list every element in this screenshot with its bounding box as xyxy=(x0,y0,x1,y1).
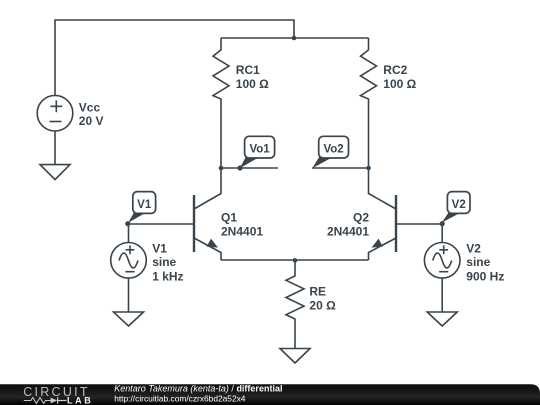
footer bar xyxy=(0,383,540,405)
node V2 junction xyxy=(440,221,445,226)
svg-text:2N4401: 2N4401 xyxy=(327,225,369,239)
svg-text:RC1: RC1 xyxy=(236,63,260,77)
svg-text:Q2: Q2 xyxy=(353,210,369,224)
voltage source V1 sine xyxy=(111,242,147,278)
wire V1 to ground xyxy=(128,278,130,312)
voltage source Vcc xyxy=(37,95,73,131)
node label Vo1 xyxy=(240,136,275,168)
resistor RC2 xyxy=(361,38,377,168)
node junction top center xyxy=(292,36,297,41)
node junction RC1 collector xyxy=(219,166,224,171)
svg-text:V2: V2 xyxy=(452,199,466,211)
svg-text:V1: V1 xyxy=(137,199,152,211)
svg-text:RE: RE xyxy=(309,284,326,298)
svg-text:V1: V1 xyxy=(152,241,167,255)
ground below RE xyxy=(280,349,310,364)
svg-text:Kentaro Takemura (kenta-ta) /: Kentaro Takemura (kenta-ta) / differenti… xyxy=(114,383,282,393)
wire Vo1 stub xyxy=(221,167,278,169)
svg-text:Vcc: Vcc xyxy=(79,101,101,115)
node label V1 xyxy=(128,192,155,223)
node label V2 xyxy=(442,192,470,223)
ground below Vcc xyxy=(40,165,70,180)
svg-text:100 Ω: 100 Ω xyxy=(383,77,416,91)
svg-text:20 Ω: 20 Ω xyxy=(309,299,336,313)
svg-text:900 Hz: 900 Hz xyxy=(466,269,504,283)
svg-text:Q1: Q1 xyxy=(221,210,237,224)
wire Vo2 stub xyxy=(312,167,369,169)
resistor RC1 xyxy=(213,38,229,168)
svg-text:Vo1: Vo1 xyxy=(249,144,270,156)
wire emitter rail xyxy=(221,259,369,261)
voltage source V2 sine xyxy=(424,242,460,278)
svg-text:20 V: 20 V xyxy=(79,114,104,128)
wire V1 to base node xyxy=(128,224,130,243)
node V1 junction xyxy=(125,221,130,226)
ground below V1 xyxy=(114,312,144,326)
svg-text:LAB: LAB xyxy=(67,395,93,405)
svg-text:http://circuitlab.com/czrx6bd2: http://circuitlab.com/czrx6bd2a52x4 xyxy=(114,393,246,403)
svg-text:2N4401: 2N4401 xyxy=(221,225,263,239)
svg-text:V2: V2 xyxy=(466,241,481,255)
node junction emitter rail xyxy=(293,258,298,263)
wire Q2 base xyxy=(396,223,442,225)
node label Vo2 xyxy=(312,136,348,168)
ground below V2 xyxy=(427,312,457,326)
node Vo1 attach dot xyxy=(237,165,242,170)
node junction RC2 collector xyxy=(366,166,371,171)
svg-text:sine: sine xyxy=(466,255,490,269)
svg-text:RC2: RC2 xyxy=(383,63,407,77)
wire top rail between RC1 and RC2 xyxy=(221,37,369,39)
wire Vcc top rail to center node xyxy=(55,20,294,95)
svg-text:Vo2: Vo2 xyxy=(323,144,343,156)
svg-text:100 Ω: 100 Ω xyxy=(236,77,269,91)
wire V2 to base node xyxy=(441,224,443,243)
resistor RE xyxy=(286,260,304,349)
wire V2 to ground xyxy=(441,278,443,312)
transistor Q2 xyxy=(369,168,397,260)
wire Vcc to ground xyxy=(54,131,56,165)
svg-text:sine: sine xyxy=(152,255,176,269)
wire Q1 base xyxy=(128,223,194,225)
CircuitLab logo resistor-diode glyph xyxy=(24,398,51,404)
transistor Q1 xyxy=(194,168,221,260)
svg-text:1 kHz: 1 kHz xyxy=(152,269,183,283)
